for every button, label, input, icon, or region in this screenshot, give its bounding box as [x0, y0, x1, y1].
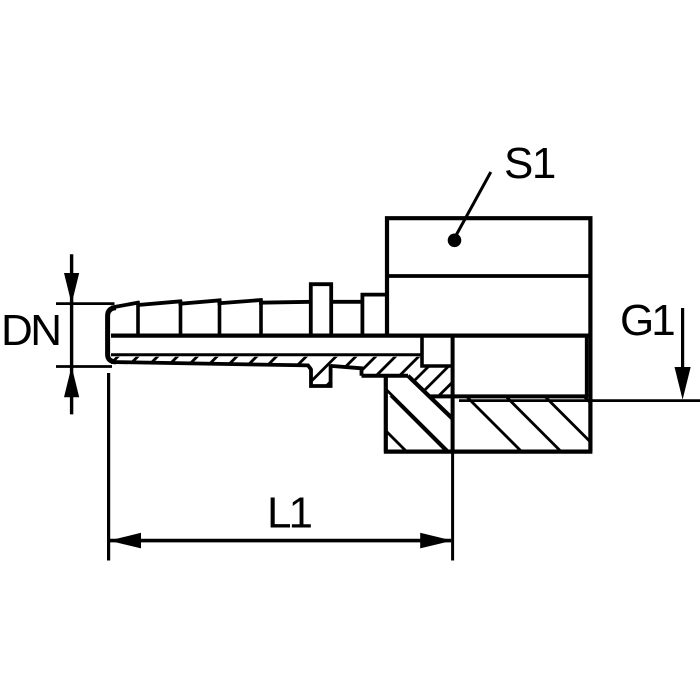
stem enlarged bottom edge [362, 374, 409, 378]
stem bottom edge sloped [111, 362, 311, 369]
svg-text:DN: DN [1, 306, 60, 355]
collar flange upper tab [311, 284, 331, 335]
stem bottom edge after tab [331, 366, 362, 376]
svg-text:L1: L1 [267, 489, 311, 538]
L1 arrow left [109, 533, 141, 549]
barb divider 4 [259, 299, 263, 336]
nut face chamfer hatch line [386, 390, 448, 452]
L1 left extension line [107, 373, 110, 561]
nut bore step vertical [451, 336, 455, 452]
stem inner wall line [111, 353, 421, 356]
G1 arrow head [675, 367, 691, 400]
nut thread relief notch [422, 336, 453, 366]
barb divider 1 [136, 301, 140, 336]
S1 leader line [455, 172, 491, 238]
G1 reference line [459, 399, 700, 402]
barb divider 3 [218, 299, 222, 336]
DN dimension line [70, 254, 73, 414]
DN arrow bottom [64, 366, 79, 397]
nut bore shoulder line [431, 394, 589, 398]
L1 dimension line [110, 539, 451, 543]
nut section hatching [340, 385, 645, 460]
stem bore line thick [111, 334, 589, 338]
stem section hatching [98, 336, 499, 400]
stem barb top edge serrated [111, 300, 311, 308]
G1 arrow line [681, 308, 684, 370]
hose stem tip rounded end [108, 308, 116, 362]
collar flange lower tab [311, 365, 331, 387]
S1 leader dot [448, 234, 462, 248]
nut body outline [387, 218, 590, 451]
svg-text:G1: G1 [620, 296, 674, 345]
L1 right extension line [451, 452, 454, 561]
nut wrench flat line [387, 274, 590, 278]
stem top edge between tabs [331, 300, 362, 304]
stem nose chamfer diagonal [408, 376, 453, 419]
DN top extent line [56, 302, 115, 305]
barb divider 2 [179, 300, 183, 336]
nut face lower edge and bottom [384, 376, 593, 452]
nut bore right inner edge [585, 337, 589, 396]
DN arrow top [64, 273, 79, 304]
L1 arrow right [420, 533, 452, 549]
DN bottom extent line [56, 365, 112, 368]
svg-text:S1: S1 [504, 139, 555, 188]
collar second shoulder [362, 295, 388, 336]
